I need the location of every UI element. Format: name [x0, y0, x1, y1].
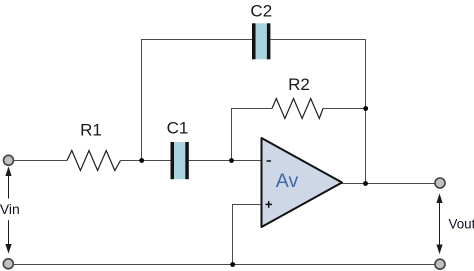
svg-text:C2: C2	[250, 1, 272, 20]
svg-text:Vout: Vout	[449, 217, 474, 232]
svg-text:C1: C1	[167, 119, 189, 138]
svg-text:R1: R1	[80, 121, 102, 140]
svg-text:Av: Av	[276, 170, 299, 192]
svg-text:Vin: Vin	[0, 201, 20, 217]
svg-text:R2: R2	[288, 75, 310, 94]
